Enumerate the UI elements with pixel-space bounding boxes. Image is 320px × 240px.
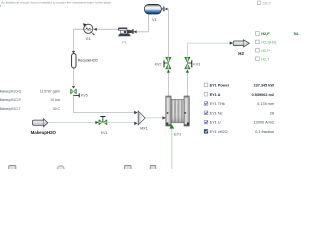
svg-text:EY1: EY1: [174, 133, 181, 137]
svg-text:EY1 Power: EY1 Power: [210, 84, 230, 88]
wire KV5 to MX1 top: [74, 94, 135, 112]
feed arrow MakeupH2O: [33, 119, 48, 127]
svg-text:10 bar: 10 bar: [50, 98, 60, 102]
svg-text:EY1 xH2O: EY1 xH2O: [210, 130, 228, 134]
node MX1 top inlet arrow: [134, 111, 138, 114]
svg-text:EY1 THk: EY1 THk: [210, 102, 225, 106]
node KV5 inlet arrow: [72, 86, 75, 89]
wire KV1 to MX1 bottom: [107, 122, 134, 124]
pump P1: [118, 28, 134, 37]
svg-text:P1: P1: [122, 41, 127, 45]
svg-text:H2,x[H2]: H2,x[H2]: [261, 40, 276, 45]
wire E1 to RecycleH2O: [74, 29, 84, 51]
checkbox O2,T: [257, 1, 271, 6]
svg-text:11.5787 gal/h: 11.5787 gal/h: [40, 89, 60, 93]
wire EY1 top to KV3: [186, 73, 188, 97]
wire MX1 to EY1: [145, 117, 162, 119]
checkbox H2,x[H2]: [256, 40, 260, 44]
svg-text:EY1 U: EY1 U: [210, 121, 221, 125]
svg-text:12000 A/m2: 12000 A/m2: [254, 121, 274, 125]
table H2 rows: [256, 31, 302, 61]
svg-text:MakeupH2O: MakeupH2O: [31, 130, 57, 135]
node V1 inlet arrow: [165, 8, 168, 11]
node recycle inlet arrow: [72, 51, 75, 54]
svg-text:An additional recycle loop is: An additional recycle loop is installed …: [1, 1, 111, 5]
node KV1 inlet arrow: [95, 121, 98, 124]
table EY1 rows: [204, 83, 274, 134]
node KV2 inlet arrow: [167, 70, 170, 73]
svg-text:237.345 kW: 237.345 kW: [254, 84, 275, 88]
wire KV3 to H2: [187, 43, 229, 57]
svg-text:MakeupH2O-T: MakeupH2O-T: [0, 107, 21, 111]
svg-text:28: 28: [270, 111, 274, 115]
electrolyzer EY1: [166, 96, 190, 126]
outlet arrow H2: [233, 41, 244, 46]
wire P1 to E1: [97, 28, 119, 30]
mixer MX1: [138, 111, 145, 125]
svg-text:O2,T: O2,T: [263, 2, 272, 6]
checkbox EY1 xH2O (checked solid): [204, 130, 208, 134]
valve KV1: [99, 117, 107, 125]
valve KV5: [71, 89, 80, 98]
node KV3 inlet arrow: [186, 70, 189, 73]
node EY1 power arrow (green): [169, 124, 174, 128]
svg-text:KV1: KV1: [101, 131, 108, 135]
checkbox H2,F: [256, 32, 260, 36]
svg-text:V1: V1: [152, 18, 157, 22]
svg-text:0.1 fraction: 0.1 fraction: [255, 130, 274, 134]
svg-text:RecycleH2O: RecycleH2O: [78, 58, 98, 62]
recycle block RecycleH2O: [72, 54, 76, 69]
svg-text:0.178 mm: 0.178 mm: [257, 102, 274, 106]
svg-text:H2,T: H2,T: [261, 56, 270, 61]
checkbox EY1 A: [204, 92, 208, 96]
checkbox H2,T: [256, 57, 260, 61]
svg-text:MakeupH2O-P: MakeupH2O-P: [0, 98, 21, 102]
svg-text:H2,P: H2,P: [261, 48, 270, 53]
cutoff icon bottom 1: [9, 165, 16, 171]
cooler E1: [83, 23, 95, 35]
svg-text:KV2: KV2: [155, 62, 162, 66]
energy stream wire EY1 power: [171, 128, 173, 169]
checkbox EY1 Power: [204, 83, 208, 87]
svg-text:H2,F: H2,F: [261, 31, 270, 36]
caption fragment: [0, 5, 1, 6]
table MakeupH2O property rows: [0, 89, 61, 111]
checkbox EY1 THk (checked): [204, 102, 208, 106]
node H2 inlet arrow: [230, 41, 233, 44]
wire MakeupH2O to KV1: [48, 122, 96, 124]
svg-text:MX1: MX1: [140, 126, 148, 130]
wire EY1 top to KV2: [167, 73, 169, 97]
wire KV2 to V1: [167, 9, 168, 57]
vessel V1: [145, 4, 165, 14]
svg-text:KV3: KV3: [193, 62, 200, 66]
svg-text:EY1 Nc: EY1 Nc: [210, 111, 223, 115]
node E1 inlet arrow: [94, 28, 97, 31]
valve KV2: [164, 57, 171, 69]
checkbox H2,P: [256, 49, 260, 53]
node MX1 bottom inlet arrow: [134, 122, 138, 125]
checkbox EY1 U (checked): [204, 120, 208, 124]
svg-text:E1: E1: [86, 37, 91, 41]
cutoff icon bottom 2: [58, 166, 64, 172]
node EY1 inlet arrow: [162, 116, 165, 119]
valve KV3: [185, 57, 192, 69]
checkbox EY1 Nc (checked): [204, 111, 208, 115]
svg-text:EY1 A: EY1 A: [210, 93, 221, 97]
svg-text:MakeupH2O-Q: MakeupH2O-Q: [0, 89, 22, 93]
svg-text:30 C: 30 C: [53, 107, 61, 111]
cutoff icon bottom 3: [125, 165, 132, 171]
cutoff icon bottom 4: [150, 165, 156, 171]
node P1 inlet arrow: [134, 30, 137, 33]
svg-text:54.1: 54.1: [294, 31, 299, 36]
svg-text:H2: H2: [238, 51, 244, 56]
svg-text:0.539062 m2: 0.539062 m2: [252, 93, 274, 97]
svg-text:KV5: KV5: [81, 94, 88, 98]
wire V1 drain to P1: [136, 14, 148, 32]
wire RecycleH2O to KV5: [73, 68, 75, 86]
